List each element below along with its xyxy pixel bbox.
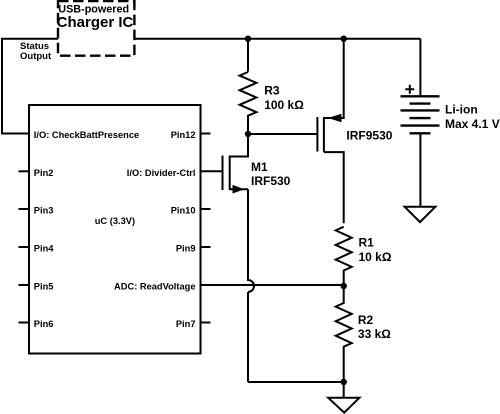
battery BT1 Li-ion (401, 96, 440, 133)
label: 100 kOhm (264, 98, 304, 112)
wire: gate node to IRF9530 gate (248, 133, 317, 135)
svg-text:uC (3.3V): uC (3.3V) (95, 216, 135, 226)
node: junction dot divider ADC node (341, 283, 347, 289)
ground symbol (battery) (405, 207, 436, 222)
wire: ADC ReadVoltage to divider node (201, 284, 344, 286)
svg-text:IRF530: IRF530 (251, 174, 291, 188)
svg-text:Charger IC: Charger IC (57, 14, 134, 31)
label: USB-powered (58, 3, 129, 15)
pin stub: Pin3 (19, 208, 30, 210)
svg-text:R3: R3 (264, 84, 280, 98)
label: Pin3 (34, 206, 54, 216)
pin stub: Pin10 (201, 208, 211, 210)
svg-text:Pin2: Pin2 (34, 168, 54, 178)
label: R2 (358, 313, 374, 327)
wire: supply to R3 top (247, 39, 249, 72)
svg-text:R2: R2 (358, 313, 374, 327)
label: Status (20, 41, 49, 52)
label: 10 kOhm (359, 250, 392, 264)
resistor R3 (240, 72, 257, 134)
label: I/O: CheckBattPresence (34, 130, 139, 140)
pin stub: Pin5 (19, 284, 30, 286)
charger IC U2 dashed box (58, 1, 134, 56)
node: junction dot supply/IRF9530 source (341, 36, 347, 42)
svg-text:I/O: CheckBattPresence: I/O: CheckBattPresence (34, 130, 139, 140)
label: + (battery positive) (405, 85, 414, 94)
wire: supply rail to battery + (419, 39, 421, 97)
label: Charger IC (57, 14, 134, 31)
wire: top supply rail (134, 38, 420, 40)
label: M1 (251, 160, 268, 174)
label: R3 (264, 84, 280, 98)
wire: battery - to ground (419, 133, 421, 206)
pin stub: Pin9 (201, 246, 211, 248)
svg-text:Pin3: Pin3 (34, 206, 54, 216)
pin stub: Pin7 (201, 322, 211, 324)
label: IRF530 (251, 174, 291, 188)
wire: bottom ground rail (248, 381, 344, 383)
wire: charger status output to uC pin 1 (2, 39, 58, 134)
svg-text:Pin10: Pin10 (171, 206, 196, 216)
wire: Divider-Ctrl pin to M1 gate (201, 170, 223, 172)
resistor R2 (336, 286, 352, 382)
svg-text:Pin5: Pin5 (34, 282, 54, 292)
svg-text:Max 4.1 V: Max 4.1 V (445, 117, 500, 131)
label: Pin12 (171, 130, 196, 140)
wire: ground node to ground symbol (343, 382, 345, 398)
label: R1 (359, 235, 375, 249)
pin stub: Pin2 (19, 170, 30, 172)
node: junction dot gate node A (245, 131, 251, 137)
transistor M1 IRF530 (223, 134, 249, 194)
svg-text:I/O: Divider-Ctrl: I/O: Divider-Ctrl (127, 168, 196, 178)
svg-text:Pin4: Pin4 (34, 244, 54, 254)
label: Pin10 (171, 206, 196, 216)
label: Output (20, 51, 52, 62)
uC box U1 (29, 105, 201, 354)
svg-text:Pin12: Pin12 (171, 130, 196, 140)
label: I/O: Divider-Ctrl (127, 168, 196, 178)
svg-text:Li-ion: Li-ion (445, 102, 478, 116)
ground symbol (divider) (328, 398, 359, 413)
svg-text:Pin9: Pin9 (176, 244, 196, 254)
transistor IRF9530 (317, 39, 343, 224)
pin stub: Pin4 (19, 246, 30, 248)
label: 33 kOhm (358, 327, 391, 341)
pin stub: Pin12 (201, 133, 211, 135)
svg-text:ADC: ReadVoltage: ADC: ReadVoltage (114, 282, 195, 292)
svg-text:100 kΩ: 100 kΩ (264, 98, 304, 112)
resistor R1 (336, 227, 352, 286)
label: Pin7 (176, 319, 196, 329)
label: Pin9 (176, 244, 196, 254)
label: Li-ion (445, 102, 478, 116)
label: Pin5 (34, 282, 54, 292)
label: Pin4 (34, 244, 54, 254)
label: IRF9530 (346, 129, 392, 143)
svg-text:M1: M1 (251, 160, 268, 174)
label: Max 4.1 V (445, 117, 500, 131)
label: uC (3.3V) (95, 216, 135, 226)
label: ADC: ReadVoltage (114, 282, 195, 292)
svg-text:Output: Output (20, 51, 52, 62)
svg-text:R1: R1 (359, 235, 375, 249)
svg-text:33 kΩ: 33 kΩ (358, 327, 391, 341)
node: junction dot supply/R3 (245, 36, 251, 42)
wire: M1 source down with hop over ADC wire (248, 189, 254, 382)
svg-text:IRF9530: IRF9530 (346, 129, 392, 143)
label: Pin6 (34, 319, 54, 329)
svg-text:10 kΩ: 10 kΩ (359, 250, 392, 264)
svg-text:Pin7: Pin7 (176, 319, 196, 329)
svg-text:Pin6: Pin6 (34, 319, 54, 329)
pin stub: Pin6 (19, 322, 30, 324)
label: Pin2 (34, 168, 54, 178)
node: junction dot ground node (341, 379, 347, 385)
